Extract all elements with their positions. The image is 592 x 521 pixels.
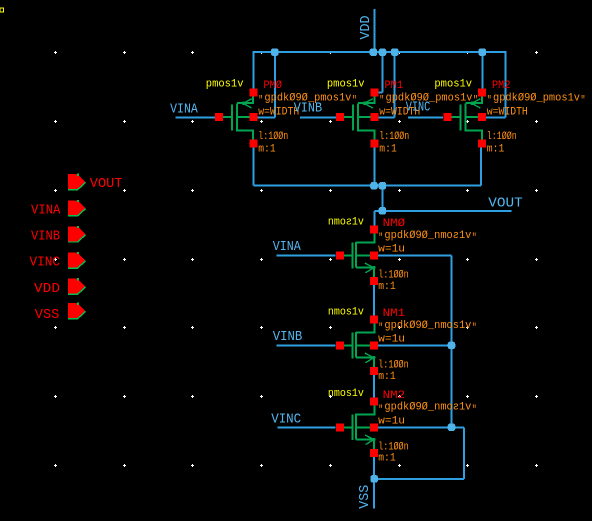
svg-text:": " [472,233,477,245]
svg-text:VINC: VINC [271,412,301,428]
svg-text:VINC: VINC [30,255,61,271]
svg-text:VOUT: VOUT [90,176,123,192]
svg-text:nmos1v: nmos1v [328,388,364,400]
svg-text:NM2: NM2 [383,390,406,402]
svg-text:VINC: VINC [406,100,431,116]
svg-text:": " [379,95,384,107]
svg-text:VINB: VINB [294,101,322,117]
svg-text:gpdkØ9Ø_nmos1v: gpdkØ9Ø_nmos1v [384,320,471,332]
svg-text:w=WIDTH: w=WIDTH [487,106,528,118]
svg-text:m:1: m:1 [379,144,397,156]
svg-text:": " [581,95,586,107]
svg-text:VSS: VSS [358,485,373,509]
svg-text:w=1u: w=1u [378,334,405,346]
svg-text:PM1: PM1 [385,80,404,92]
svg-text:VSS: VSS [35,307,60,323]
svg-text:nmoƨ1v: nmoƨ1v [328,216,364,228]
svg-text:VINA: VINA [170,101,198,117]
svg-text:m:1: m:1 [378,281,396,293]
svg-text:w=1u: w=1u [378,244,405,256]
svg-text:": " [352,95,357,107]
svg-text:w=1u: w=1u [378,415,405,427]
svg-text:gpdkØ9Ø_pmos1v: gpdkØ9Ø_pmos1v [493,92,580,104]
svg-text:l:1ØØn: l:1ØØn [379,131,409,143]
svg-text:VINB: VINB [31,229,60,245]
svg-text:": " [472,323,477,335]
svg-text:gpdkØ9Ø_nmoƨ1v: gpdkØ9Ø_nmoƨ1v [384,402,471,414]
svg-text:VDD: VDD [359,16,374,40]
svg-text:l:1ØØn: l:1ØØn [487,131,517,143]
svg-text:m:1: m:1 [378,453,396,465]
svg-text:gpdkØ9Ø_nmoƨ1v: gpdkØ9Ø_nmoƨ1v [384,230,471,242]
svg-text:pmos1v: pmos1v [206,79,244,91]
svg-text:l:1ØØn: l:1ØØn [258,131,288,143]
svg-text:PMØ: PMØ [263,80,282,92]
svg-text:VOUT: VOUT [488,195,523,211]
svg-text:": " [258,95,263,107]
svg-text:pmos1v: pmos1v [434,79,472,91]
svg-text:VINB: VINB [273,329,303,345]
svg-text:pmos1v: pmos1v [327,79,365,91]
svg-text:": " [473,95,478,107]
svg-text:VDD: VDD [34,281,60,297]
svg-text:nmos1v: nmos1v [328,306,364,318]
svg-text:VINA: VINA [31,202,61,218]
svg-text:": " [472,405,477,417]
svg-text:": " [487,95,492,107]
svg-text:m:1: m:1 [258,144,276,156]
svg-text:m:1: m:1 [487,144,505,156]
svg-text:m:1: m:1 [378,371,396,383]
svg-text:VINA: VINA [273,239,301,255]
svg-text:NM1: NM1 [383,308,406,320]
svg-text:PM2: PM2 [492,80,511,92]
svg-text:NMØ: NMØ [383,218,406,230]
